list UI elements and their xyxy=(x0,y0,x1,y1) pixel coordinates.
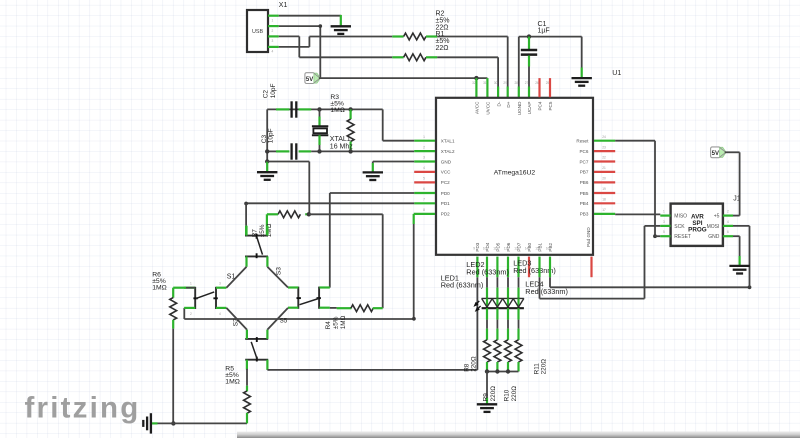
resistor R2 22ohm xyxy=(404,33,426,40)
wire R7 node xyxy=(305,213,309,215)
svg-text:PC7: PC7 xyxy=(579,159,588,164)
wire 5V to J1 +5 xyxy=(725,151,740,153)
pushbutton S5 xyxy=(297,287,299,309)
svg-text:PC5: PC5 xyxy=(548,101,553,110)
svg-text:3: 3 xyxy=(663,220,665,224)
S2 lead top-left xyxy=(246,330,248,339)
capacitor C1 1uF xyxy=(528,37,530,49)
resistor R9 220ohm xyxy=(494,340,501,362)
svg-text:1: 1 xyxy=(190,282,192,286)
svg-text:4: 4 xyxy=(272,50,274,54)
pin PD7 stub xyxy=(517,257,519,278)
svg-text:30: 30 xyxy=(494,81,498,85)
wire ground rail bottom xyxy=(157,422,247,424)
svg-text:220Ω: 220Ω xyxy=(541,359,548,375)
pin PD4 stub xyxy=(486,257,488,278)
svg-text:XTAL2: XTAL2 xyxy=(441,149,455,154)
wire rail to ground right xyxy=(581,37,583,68)
wire XTAL2 rail xyxy=(267,150,276,152)
svg-text:4: 4 xyxy=(219,312,221,316)
LED1 triangle xyxy=(486,298,488,308)
wire to ground GND3 xyxy=(266,162,268,172)
svg-text:U1: U1 xyxy=(612,70,621,77)
svg-text:UVCC: UVCC xyxy=(486,101,491,115)
svg-text:2: 2 xyxy=(727,210,729,214)
svg-text:PB5: PB5 xyxy=(580,191,589,196)
pin PadGND unconnected xyxy=(590,257,592,278)
svg-text:SCK: SCK xyxy=(674,224,685,230)
wire LED1 to R8 xyxy=(486,308,488,319)
junction R10 xyxy=(506,369,510,373)
svg-text:D+: D+ xyxy=(506,101,511,107)
svg-text:6: 6 xyxy=(727,230,729,234)
wire S1 to S2 diagonal xyxy=(226,308,247,330)
junction R3 bottom xyxy=(348,149,352,153)
svg-text:3: 3 xyxy=(423,156,425,160)
wire R7 node to R4 xyxy=(309,213,383,215)
svg-text:R10: R10 xyxy=(504,389,511,401)
svg-text:S3: S3 xyxy=(275,267,282,275)
S2 lead bottom-left xyxy=(246,360,248,370)
svg-text:UGND: UGND xyxy=(517,101,522,115)
S3 lead top-left xyxy=(245,226,247,236)
LED row cathode bar xyxy=(482,307,524,309)
resistor R7 1Mohm xyxy=(278,211,300,218)
svg-text:2: 2 xyxy=(190,312,192,316)
pin PC4 unconnected xyxy=(538,78,540,97)
svg-text:R9: R9 xyxy=(483,393,490,402)
wire resistor join line xyxy=(487,371,519,373)
power 5V flag xyxy=(305,73,315,84)
junction R8 xyxy=(485,369,489,373)
wire LED2 to R9 xyxy=(496,308,498,319)
svg-text:3: 3 xyxy=(219,282,221,286)
crystal XTAL1 16MHz xyxy=(319,109,321,116)
svg-text:PROG: PROG xyxy=(688,226,707,233)
wire R1 to D- xyxy=(437,56,498,58)
svg-text:22: 22 xyxy=(602,156,606,160)
wire to LED2 xyxy=(496,277,498,287)
svg-text:VCC: VCC xyxy=(441,170,451,175)
svg-text:S5: S5 xyxy=(280,318,288,325)
svg-text:MISO: MISO xyxy=(674,214,687,220)
svg-text:9: 9 xyxy=(473,247,475,251)
wire Reset to J1 RESET xyxy=(594,140,615,142)
connector X1 USB xyxy=(247,10,268,52)
resistor R8 220ohm xyxy=(484,340,491,362)
wire AVCC drop xyxy=(475,78,477,97)
S3 lead bottom-left xyxy=(245,256,247,266)
junction crystal bottom xyxy=(317,149,321,153)
wire PB1 to SCK xyxy=(538,257,540,278)
pin PD3 stub xyxy=(476,257,478,278)
svg-text:R11: R11 xyxy=(533,363,540,375)
resistor R3 1Mohm xyxy=(350,109,352,119)
ground GND2 xyxy=(572,77,592,79)
svg-text:10: 10 xyxy=(483,247,487,251)
wire USB pin2 down to 5V rail xyxy=(279,25,321,27)
wire UCAP drop xyxy=(528,87,530,98)
svg-text:5: 5 xyxy=(663,230,665,234)
pin PB0 unconnected xyxy=(528,257,530,278)
junction R9 xyxy=(495,369,499,373)
LED row anode line xyxy=(482,297,524,299)
pin VCC unconnected xyxy=(414,171,435,173)
svg-text:PD2: PD2 xyxy=(441,212,450,217)
wire USB pin4 to R2 xyxy=(279,46,310,48)
junction ground rail xyxy=(171,421,175,425)
svg-text:22Ω: 22Ω xyxy=(436,45,449,52)
svg-text:26: 26 xyxy=(535,81,539,85)
svg-text:1MΩ: 1MΩ xyxy=(340,315,347,329)
svg-text:1: 1 xyxy=(423,135,425,139)
svg-text:20: 20 xyxy=(602,177,606,181)
pin 1 X1 xyxy=(268,15,279,17)
IC right unconnected pins PC6 PC7 PB7 PB6 PB5 PB4 xyxy=(594,150,615,152)
S1 lead bottom-right xyxy=(216,307,226,309)
svg-text:1: 1 xyxy=(272,19,274,23)
J1 right pin stubs xyxy=(723,215,733,217)
wire ground net to PD2 node xyxy=(267,161,309,163)
svg-text:XTAL1: XTAL1 xyxy=(330,136,351,143)
svg-text:Reset: Reset xyxy=(576,139,589,144)
svg-text:10pF: 10pF xyxy=(270,83,277,98)
svg-text:16: 16 xyxy=(546,247,550,251)
wire left vertical C2 C3 ground xyxy=(266,109,268,161)
svg-text:UCAP: UCAP xyxy=(527,102,532,115)
LED3 triangle xyxy=(507,298,509,308)
wire join to ground xyxy=(486,372,488,398)
svg-text:ATmega16U2: ATmega16U2 xyxy=(494,169,536,176)
svg-text:14: 14 xyxy=(525,247,529,251)
power 5V flag J1 xyxy=(711,147,721,158)
svg-text:10pF: 10pF xyxy=(268,128,275,143)
svg-text:8: 8 xyxy=(423,208,425,212)
svg-text:Red (633nm): Red (633nm) xyxy=(466,267,509,276)
svg-text:15: 15 xyxy=(535,247,539,251)
pushbutton S1 xyxy=(194,287,196,309)
svg-text:PC2: PC2 xyxy=(441,180,450,185)
resistor R4 1Mohm xyxy=(330,307,337,309)
wire S2 to PD3 xyxy=(267,369,270,371)
S1 lead bottom-left xyxy=(184,307,195,309)
svg-text:R4: R4 xyxy=(325,321,332,330)
svg-text:21: 21 xyxy=(602,166,606,170)
svg-text:18: 18 xyxy=(602,198,606,202)
svg-text:C2: C2 xyxy=(263,90,270,99)
svg-text:28: 28 xyxy=(515,81,519,85)
IC U1 ATmega16U2 body xyxy=(436,98,593,255)
svg-text:16 Mhz: 16 Mhz xyxy=(330,143,353,150)
svg-text:2: 2 xyxy=(272,29,274,33)
ground GND1 xyxy=(331,25,351,27)
svg-text:24: 24 xyxy=(602,135,606,139)
S3 lead top-right xyxy=(266,226,268,236)
wire R6 to ground rail xyxy=(172,329,174,424)
wire 5V rail to AVCC/UVCC xyxy=(319,77,488,79)
pin PD5 stub xyxy=(496,257,498,278)
bottom gray bar xyxy=(237,432,800,438)
svg-text:R8: R8 xyxy=(463,363,470,372)
wire S1 to S3 diagonal xyxy=(226,267,246,288)
bottom bar top line xyxy=(255,431,800,433)
svg-text:1MΩ: 1MΩ xyxy=(152,284,167,291)
wire LED4 to R11 xyxy=(517,308,519,319)
svg-text:AVCC: AVCC xyxy=(475,101,480,114)
capacitor C3 10pF xyxy=(276,150,289,152)
wire PD1 to S3 xyxy=(414,202,435,204)
svg-text:PD1: PD1 xyxy=(441,201,450,206)
svg-text:PB7: PB7 xyxy=(580,170,589,175)
LED2 triangle xyxy=(496,298,498,308)
pushbutton S2 xyxy=(245,338,268,340)
svg-text:PC6: PC6 xyxy=(579,149,588,154)
pin PC2 unconnected xyxy=(414,181,435,183)
pin 4 X1 xyxy=(268,46,279,48)
svg-text:XTAL1: XTAL1 xyxy=(441,139,455,144)
resistor R10 220ohm xyxy=(505,340,512,362)
resistor R5 1Mohm xyxy=(246,369,248,386)
ground GND3 xyxy=(257,171,277,173)
wire S2 to S5 diagonal xyxy=(267,308,288,330)
svg-text:PB4: PB4 xyxy=(580,201,589,206)
svg-text:D-: D- xyxy=(496,101,501,106)
wire PB3 to MISO xyxy=(594,213,615,215)
ground GND4 xyxy=(363,171,383,173)
svg-text:220Ω: 220Ω xyxy=(471,356,478,372)
S2 lead bottom-right xyxy=(266,360,268,370)
svg-text:PB3: PB3 xyxy=(580,212,589,217)
junction C3 left xyxy=(265,149,269,153)
resistor R11 220ohm xyxy=(515,340,522,362)
svg-text:5V: 5V xyxy=(306,77,313,83)
svg-text:4: 4 xyxy=(423,166,425,170)
wire USB pin3 to R1 xyxy=(279,35,300,37)
wire J1 GND to ground xyxy=(733,235,740,237)
svg-text:25: 25 xyxy=(546,81,550,85)
wire IC GND pin to ground xyxy=(414,160,435,162)
pushbutton S3 xyxy=(245,235,268,237)
wire USB pin1 to ground xyxy=(279,15,341,17)
S5 lead bottom-left xyxy=(288,307,298,309)
svg-text:GND: GND xyxy=(708,234,720,240)
svg-text:6: 6 xyxy=(423,187,425,191)
svg-text:GND: GND xyxy=(441,159,452,164)
ground GND7 xyxy=(477,403,497,405)
pin PC5 unconnected xyxy=(549,78,551,97)
svg-text:fritzing: fritzing xyxy=(25,392,141,425)
LED4 triangle xyxy=(517,298,519,308)
J1 left pin stubs xyxy=(660,215,670,217)
svg-text:5V: 5V xyxy=(712,151,719,157)
svg-text:1µF: 1µF xyxy=(538,28,550,35)
wire to LED3 xyxy=(507,277,509,287)
svg-text:PB6: PB6 xyxy=(580,180,589,185)
S5 lead top-left xyxy=(288,286,298,288)
svg-text:+5: +5 xyxy=(714,214,720,220)
S5 lead bottom-right xyxy=(319,307,329,309)
svg-text:17: 17 xyxy=(602,208,606,212)
svg-text:PD3: PD3 xyxy=(475,242,480,251)
S1 lead top-left xyxy=(184,287,195,289)
ground GND6 xyxy=(729,265,749,267)
ground GND5 rotated xyxy=(150,413,152,433)
svg-text:Pad GND: Pad GND xyxy=(586,227,591,247)
pin PD6 stub xyxy=(507,257,509,278)
svg-text:19: 19 xyxy=(602,187,606,191)
svg-text:1MΩ: 1MΩ xyxy=(330,107,345,114)
svg-text:X1: X1 xyxy=(279,2,288,9)
svg-text:220Ω: 220Ω xyxy=(490,386,497,402)
wire S3 to S5 diagonal xyxy=(267,267,288,288)
pin 2 X1 xyxy=(268,25,279,27)
junction XTAL1-crystal xyxy=(317,107,321,111)
svg-text:12: 12 xyxy=(504,247,508,251)
svg-text:27: 27 xyxy=(525,81,529,85)
resistor R6 1Mohm xyxy=(173,287,186,289)
svg-text:MOSI: MOSI xyxy=(707,224,720,230)
svg-text:32: 32 xyxy=(472,81,476,85)
svg-text:13: 13 xyxy=(514,247,518,251)
resistor R1 22ohm xyxy=(404,54,426,61)
svg-text:220Ω: 220Ω xyxy=(511,386,518,402)
svg-text:11: 11 xyxy=(493,247,497,251)
wire UVCC drop xyxy=(486,78,488,97)
wire UGND C1 ground rail xyxy=(519,36,582,38)
svg-text:1MΩ: 1MΩ xyxy=(225,378,240,385)
svg-text:PD0: PD0 xyxy=(441,191,450,196)
wire PB2 to MOSI xyxy=(549,257,551,278)
S2 lead top-right xyxy=(266,330,268,339)
svg-text:±5%: ±5% xyxy=(333,316,340,329)
wire to LED1 xyxy=(486,277,488,287)
svg-text:1: 1 xyxy=(663,210,665,214)
svg-text:31: 31 xyxy=(483,81,487,85)
junction XTAL1-R3 xyxy=(348,107,352,111)
svg-text:PC4: PC4 xyxy=(538,101,543,110)
svg-text:RESET: RESET xyxy=(674,234,691,240)
S1 lead top-right xyxy=(216,287,226,289)
S3 lead bottom-right xyxy=(266,256,268,266)
wire PD2 down to buttons xyxy=(414,213,435,215)
capacitor C2 10pF xyxy=(276,108,289,110)
svg-text:Red (633nm): Red (633nm) xyxy=(441,281,484,290)
LED emission arrows xyxy=(475,301,480,306)
wire R2 to D+ xyxy=(437,36,508,38)
svg-text:29: 29 xyxy=(503,81,507,85)
pin 3 X1 xyxy=(268,35,279,37)
junction C1 top xyxy=(527,34,531,38)
junction 5V-AVCC xyxy=(474,76,478,80)
wire PD0 to S5 top xyxy=(414,192,435,194)
svg-text:4: 4 xyxy=(727,220,729,224)
svg-text:23: 23 xyxy=(602,145,606,149)
svg-text:3: 3 xyxy=(272,39,274,43)
wire LED3 to R10 xyxy=(507,308,509,319)
svg-text:2: 2 xyxy=(423,145,425,149)
S5 lead top-right xyxy=(319,286,329,288)
svg-text:USB: USB xyxy=(252,29,263,35)
wire XTAL1 pin to crystal rail xyxy=(414,140,435,142)
wire to LED4 xyxy=(518,277,520,287)
svg-text:7: 7 xyxy=(423,198,425,202)
svg-text:5: 5 xyxy=(423,177,425,181)
junction ground left xyxy=(265,159,269,163)
connector J1 AVR SPI PROG body xyxy=(671,204,723,246)
